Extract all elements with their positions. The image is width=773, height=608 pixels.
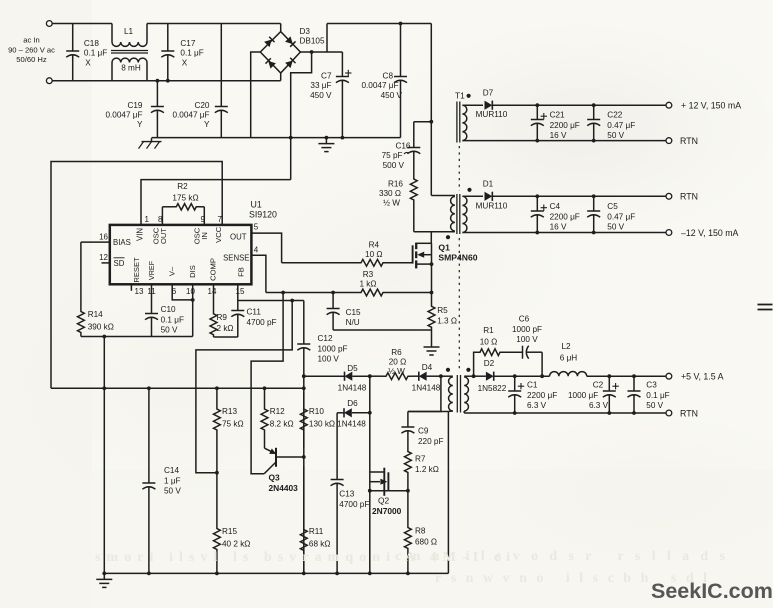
svg-text:C10: C10 bbox=[161, 305, 176, 314]
svg-text:D1: D1 bbox=[483, 179, 494, 188]
svg-text:OUT: OUT bbox=[230, 232, 247, 241]
diode D7 MUR110 bbox=[462, 104, 483, 106]
wire - AC bottom line bbox=[52, 80, 281, 82]
transformer T1 bias winding (left) bbox=[441, 375, 453, 377]
resistor R4 gate bbox=[282, 262, 358, 264]
resistor R9 comp bbox=[213, 284, 215, 311]
svg-text:0.1 μF: 0.1 μF bbox=[180, 49, 203, 58]
svg-text:R16: R16 bbox=[388, 179, 403, 188]
pin 9 OSC IN bbox=[203, 207, 205, 225]
node - V-/DIS join bbox=[191, 298, 195, 302]
svg-text:SMP4N60: SMP4N60 bbox=[438, 253, 477, 263]
wire - VCC bus from left rail bbox=[51, 162, 222, 389]
svg-text:RTN: RTN bbox=[680, 136, 698, 146]
pin 8 OSC OUT bbox=[161, 207, 163, 225]
wire - -12V rail bbox=[462, 232, 669, 234]
svg-text:R3: R3 bbox=[363, 270, 374, 279]
capacitor C3 output bbox=[632, 374, 636, 378]
chassis ground for C19 C20 bbox=[151, 138, 153, 142]
svg-text:Q1: Q1 bbox=[438, 242, 450, 252]
transformer T1 +5V secondary bbox=[464, 377, 468, 411]
svg-text:10 Ω: 10 Ω bbox=[365, 250, 383, 259]
node - primary dot mark bbox=[446, 235, 450, 239]
svg-text:MUR110: MUR110 bbox=[476, 202, 508, 211]
svg-text:2N4403: 2N4403 bbox=[269, 483, 299, 493]
svg-text:N/U: N/U bbox=[346, 318, 360, 327]
svg-text:C4: C4 bbox=[550, 202, 561, 211]
svg-text:175 kΩ: 175 kΩ bbox=[172, 194, 198, 203]
svg-text:500 V: 500 V bbox=[383, 161, 405, 170]
node - D5/D6 join bbox=[368, 374, 372, 378]
wire - D5/D6 gate column bbox=[369, 376, 371, 573]
wire - primary bottom bbox=[414, 231, 455, 233]
capacitor C11 comp bbox=[237, 284, 239, 300]
svg-text:L1: L1 bbox=[124, 27, 134, 36]
node - snubber left tap bbox=[472, 374, 476, 378]
capacitor C18 bbox=[72, 24, 74, 52]
svg-text:C7: C7 bbox=[321, 72, 332, 81]
wire - +5V RTN rail bbox=[463, 411, 465, 413]
svg-text:U1: U1 bbox=[251, 200, 262, 210]
svg-text:C20: C20 bbox=[194, 101, 209, 110]
svg-text:8 mH: 8 mH bbox=[121, 64, 141, 73]
svg-text:1.3 Ω: 1.3 Ω bbox=[437, 316, 457, 325]
wire - staircase to bottom rail bbox=[291, 52, 312, 180]
capacitor C10 reference bbox=[151, 284, 153, 313]
wire - VIN bus to rectified DC bbox=[141, 180, 291, 225]
node - snubber tap bbox=[429, 120, 433, 124]
svg-text:16 V: 16 V bbox=[550, 223, 567, 232]
resistor R13 divider bbox=[215, 386, 219, 390]
diode D1 MUR110 bbox=[462, 195, 483, 197]
svg-text:C17: C17 bbox=[180, 39, 195, 48]
svg-text:C21: C21 bbox=[550, 111, 565, 120]
resistor R12 bbox=[263, 386, 267, 390]
svg-text:7: 7 bbox=[218, 215, 223, 224]
pin 16 BIAS bbox=[81, 241, 110, 243]
resistor R11 divider bbox=[300, 466, 307, 573]
svg-text:ac In: ac In bbox=[23, 35, 39, 44]
svg-text:D6: D6 bbox=[347, 399, 358, 408]
capacitor C14 soft start bbox=[147, 386, 151, 390]
wire - bottom ground rail bbox=[104, 572, 448, 574]
capacitor C13 bbox=[336, 413, 338, 480]
svg-text:+5 V, 1.5 A: +5 V, 1.5 A bbox=[681, 371, 724, 381]
svg-text:1N4148: 1N4148 bbox=[337, 420, 366, 429]
terminal +5V output bbox=[666, 373, 672, 379]
svg-text:R2: R2 bbox=[177, 182, 188, 191]
resistor R15 bbox=[213, 524, 220, 573]
wire - top DC rail bbox=[327, 23, 431, 25]
snubber C6 bbox=[502, 351, 523, 353]
svg-text:2200 μF: 2200 μF bbox=[550, 212, 580, 221]
svg-text:100 V: 100 V bbox=[516, 335, 538, 344]
svg-text:1 kΩ: 1 kΩ bbox=[359, 280, 376, 289]
svg-text:VCC: VCC bbox=[214, 226, 223, 243]
diode D6 1N4148 bbox=[337, 412, 344, 414]
svg-text:1000 pF: 1000 pF bbox=[512, 325, 542, 334]
svg-text:RTN: RTN bbox=[680, 192, 698, 202]
wire - sense tap to Q3 collector bbox=[251, 293, 283, 474]
transformer core dashed line upper bbox=[458, 146, 460, 191]
svg-text:Y: Y bbox=[137, 120, 143, 129]
svg-text:13: 13 bbox=[135, 287, 144, 296]
node - R3/R5 junction bbox=[430, 291, 434, 295]
svg-text:1000 pF: 1000 pF bbox=[318, 344, 348, 353]
svg-text:40 2 kΩ: 40 2 kΩ bbox=[222, 540, 250, 549]
transformer T1 core bbox=[456, 194, 458, 234]
svg-text:R14: R14 bbox=[88, 310, 103, 319]
svg-text:6.3 V: 6.3 V bbox=[527, 401, 547, 410]
svg-text:6.3 V: 6.3 V bbox=[589, 401, 609, 410]
svg-text:C1: C1 bbox=[527, 381, 538, 390]
capacitor C4 bbox=[535, 194, 539, 198]
svg-text:SD: SD bbox=[114, 259, 125, 268]
wire - riser to top DC rail bbox=[326, 24, 328, 53]
wire - Q1 drain/source vertical bbox=[431, 243, 433, 292]
wire - bridge top vertex to AC line bbox=[280, 24, 282, 32]
capacitor C12 feedback bbox=[303, 301, 305, 345]
wire - mid ground rail bbox=[51, 387, 304, 389]
svg-text:C14: C14 bbox=[164, 466, 179, 475]
svg-text:IN: IN bbox=[200, 232, 209, 240]
node - bias winding dot mark bbox=[446, 368, 450, 372]
svg-text:12: 12 bbox=[99, 253, 108, 262]
resistor R16 snubber bbox=[410, 179, 417, 232]
wire - +12V RTN rail bbox=[462, 140, 669, 142]
transistor Q3 2N4403 bbox=[264, 448, 304, 474]
svg-text:R10: R10 bbox=[309, 407, 324, 416]
svg-text:16 V: 16 V bbox=[550, 131, 567, 140]
node - C12 to mid rail bbox=[302, 386, 306, 390]
node - staircase crosses rail bbox=[289, 136, 293, 140]
transformer T1 primary winding bbox=[431, 195, 455, 197]
transistor Q2 2N7000 bbox=[368, 468, 410, 496]
svg-text:BIAS: BIAS bbox=[113, 238, 131, 247]
resistor R10 divider bbox=[300, 392, 307, 448]
svg-text:100 V: 100 V bbox=[318, 355, 340, 364]
svg-text:½ W: ½ W bbox=[383, 199, 400, 208]
svg-text:C3: C3 bbox=[646, 381, 657, 390]
node - staircase junction bbox=[310, 50, 314, 54]
earth ground on bulk rail bbox=[325, 136, 329, 140]
svg-text:SI9120: SI9120 bbox=[249, 210, 277, 220]
wire - DC rail down to primary bbox=[430, 24, 432, 196]
svg-text:RESET: RESET bbox=[132, 257, 141, 283]
transformer T1 bottom core bbox=[456, 375, 458, 413]
snubber R1 bbox=[474, 352, 478, 376]
svg-text:C8: C8 bbox=[383, 72, 394, 81]
svg-text:10 Ω: 10 Ω bbox=[480, 338, 498, 347]
terminal +12V RTN bbox=[666, 138, 672, 144]
svg-text:50 V: 50 V bbox=[161, 326, 178, 335]
terminal +5V RTN bbox=[666, 410, 672, 416]
svg-text:R6: R6 bbox=[391, 348, 402, 357]
node - D4 output bbox=[439, 374, 443, 378]
ground - below R5 bbox=[431, 341, 433, 347]
svg-text:C19: C19 bbox=[127, 101, 142, 110]
wire - Y-cap / bulk cap bottom rail bbox=[152, 137, 401, 139]
wire - AC top line bbox=[52, 23, 112, 25]
svg-text:0.47 μF: 0.47 μF bbox=[607, 121, 635, 130]
resistor R3 sense filter bbox=[266, 292, 358, 294]
capacitor C9 bbox=[407, 412, 409, 428]
ghost bleed-through text bbox=[95, 549, 726, 586]
pin 13 RESET stub bbox=[130, 284, 132, 291]
svg-text:1N4148: 1N4148 bbox=[338, 384, 367, 393]
svg-text:130 kΩ: 130 kΩ bbox=[309, 420, 335, 429]
op-amp U1 SI9120 controller IC body bbox=[110, 225, 252, 284]
wire - analog ground bus bbox=[81, 336, 193, 338]
svg-text:20 Ω: 20 Ω bbox=[389, 358, 407, 367]
transformer T1 +12V secondary bbox=[456, 102, 458, 143]
svg-text:D3: D3 bbox=[300, 27, 311, 36]
svg-text:R1: R1 bbox=[483, 326, 494, 335]
wire - V- pin link bbox=[172, 284, 193, 300]
svg-text:680 Ω: 680 Ω bbox=[415, 537, 437, 546]
svg-text:R11: R11 bbox=[309, 527, 324, 536]
svg-text:6 μH: 6 μH bbox=[560, 353, 578, 362]
resistor R6 bbox=[383, 373, 411, 380]
svg-text:0.47 μF: 0.47 μF bbox=[607, 212, 635, 221]
svg-text:220 pF: 220 pF bbox=[418, 437, 444, 446]
svg-text:FB: FB bbox=[236, 267, 245, 277]
node - bottom rail left end bbox=[102, 572, 106, 576]
node - +5V winding dot mark bbox=[466, 368, 470, 372]
wire - snubber tap link bbox=[414, 121, 432, 123]
capacitor C21 bbox=[535, 103, 539, 107]
wire - FB to divider drop bbox=[196, 301, 292, 473]
diode D4 1N4148 bbox=[418, 372, 420, 381]
wire - DIS pin down to ground bus bbox=[192, 284, 194, 336]
svg-text:+ 12 V, 150 mA: + 12 V, 150 mA bbox=[681, 100, 741, 110]
capacitor C16 snubber bbox=[413, 122, 415, 148]
svg-text:R15: R15 bbox=[222, 527, 237, 536]
svg-text:75 pF: 75 pF bbox=[382, 151, 403, 160]
svg-text:Q2: Q2 bbox=[378, 496, 390, 506]
node - ground bus drop bbox=[102, 335, 106, 339]
svg-text:C9: C9 bbox=[418, 427, 429, 436]
node - sense feedback tap bbox=[281, 291, 285, 295]
svg-text:RTN: RTN bbox=[680, 408, 698, 418]
svg-text:50 V: 50 V bbox=[164, 487, 181, 496]
svg-text:4700 pF: 4700 pF bbox=[339, 500, 369, 509]
node - D6/gate column bbox=[368, 411, 372, 415]
svg-text:2 kΩ: 2 kΩ bbox=[217, 324, 234, 333]
svg-text:0.0047 μF: 0.0047 μF bbox=[361, 81, 398, 90]
wire - C15 bottom return bbox=[333, 329, 431, 331]
svg-text:C13: C13 bbox=[339, 490, 354, 499]
wire - bridge left vertex drop bbox=[251, 52, 261, 138]
svg-text:33 μF: 33 μF bbox=[310, 81, 331, 90]
transformer core dashed line lower bbox=[458, 238, 460, 371]
svg-text:VIN: VIN bbox=[136, 228, 145, 241]
inductor L2 bbox=[515, 375, 550, 377]
svg-text:C2: C2 bbox=[593, 381, 604, 390]
svg-text:OUT: OUT bbox=[159, 228, 168, 244]
capacitor C20 bbox=[220, 24, 222, 107]
capacitor C8 bbox=[400, 24, 402, 77]
svg-text:X: X bbox=[182, 58, 188, 67]
svg-text:VREF: VREF bbox=[147, 260, 156, 280]
svg-text:9: 9 bbox=[201, 215, 206, 224]
resistor R5 current sense bbox=[428, 293, 435, 342]
svg-text:DB105: DB105 bbox=[300, 36, 325, 45]
page margin equals mark bbox=[758, 304, 773, 306]
inductor L1 (common-mode choke) bbox=[111, 24, 113, 43]
svg-text:C15: C15 bbox=[346, 308, 361, 317]
svg-text:8.2 kΩ: 8.2 kΩ bbox=[270, 420, 294, 429]
capacitor C22 bbox=[592, 103, 596, 107]
svg-text:0.1 μF: 0.1 μF bbox=[84, 49, 107, 58]
capacitor C5 bbox=[592, 194, 596, 198]
svg-text:R12: R12 bbox=[270, 407, 285, 416]
resistor R8 bbox=[405, 491, 412, 574]
svg-text:R4: R4 bbox=[369, 240, 380, 249]
capacitor C2 output bbox=[607, 374, 611, 378]
svg-text:C16: C16 bbox=[395, 142, 410, 151]
svg-text:SENSE: SENSE bbox=[223, 253, 249, 262]
node - C17 bottom junction bbox=[166, 79, 170, 83]
svg-text:390 kΩ: 390 kΩ bbox=[88, 323, 114, 332]
terminal -12V bbox=[666, 230, 672, 236]
svg-text:330 Ω: 330 Ω bbox=[379, 189, 401, 198]
svg-text:Y: Y bbox=[204, 120, 210, 129]
diode D2 1N5822 bbox=[474, 375, 486, 377]
capacitor C15 not used bbox=[331, 291, 335, 295]
svg-text:R5: R5 bbox=[437, 306, 448, 315]
svg-text:1: 1 bbox=[145, 215, 150, 224]
svg-text:4700 pF: 4700 pF bbox=[247, 318, 277, 327]
node - FB branch bbox=[290, 299, 294, 303]
svg-text:1N4148: 1N4148 bbox=[412, 384, 441, 393]
svg-text:15: 15 bbox=[236, 287, 245, 296]
svg-text:0.1 μF: 0.1 μF bbox=[646, 391, 669, 400]
wire - D4 drop to C9 branch bbox=[408, 376, 441, 411]
svg-text:R7: R7 bbox=[415, 455, 426, 464]
svg-text:C18: C18 bbox=[84, 39, 99, 48]
wire - ground drop to bottom rail bbox=[103, 337, 105, 574]
wire - bias winding bottom to rail bbox=[408, 411, 449, 413]
wire - FB node line bbox=[238, 300, 304, 302]
capacitor C17 bbox=[167, 24, 169, 52]
capacitor C7 (bulk) bbox=[341, 52, 343, 77]
wire - divider column bbox=[303, 376, 305, 573]
resistor R2 oscillator bbox=[162, 206, 172, 208]
svg-text:14: 14 bbox=[208, 287, 217, 296]
ac input terminal (neutral) bbox=[46, 78, 52, 84]
ac input terminal (line) bbox=[46, 21, 52, 27]
svg-text:2200 μF: 2200 μF bbox=[527, 391, 557, 400]
svg-text:450 V: 450 V bbox=[310, 91, 332, 100]
wire - +5V rail from winding bbox=[464, 375, 473, 377]
svg-text:2N7000: 2N7000 bbox=[372, 506, 402, 516]
svg-text:90 – 260 V ac: 90 – 260 V ac bbox=[8, 46, 55, 55]
svg-text:C6: C6 bbox=[519, 315, 530, 324]
svg-text:DIS: DIS bbox=[188, 265, 197, 278]
wire - OUT pin to gate resistor bbox=[251, 233, 281, 263]
ground - main bottom ground bbox=[103, 573, 105, 579]
svg-text:4: 4 bbox=[254, 246, 259, 255]
terminal -12V RTN bbox=[666, 193, 672, 199]
svg-text:R8: R8 bbox=[415, 527, 426, 536]
svg-text:5: 5 bbox=[254, 222, 259, 231]
pin 12 SD bbox=[102, 262, 110, 264]
svg-text:1N5822: 1N5822 bbox=[478, 384, 507, 393]
svg-text:D7: D7 bbox=[483, 89, 494, 98]
node - -12V winding dot bbox=[467, 188, 471, 192]
svg-text:D2: D2 bbox=[484, 359, 495, 368]
capacitor C19 bbox=[156, 79, 160, 83]
svg-text:L2: L2 bbox=[561, 342, 571, 351]
svg-text:C22: C22 bbox=[607, 111, 622, 120]
svg-text:SeekIC.com: SeekIC.com bbox=[651, 579, 773, 603]
svg-text:2200 μF: 2200 μF bbox=[550, 121, 580, 130]
svg-text:0.0047 μF: 0.0047 μF bbox=[105, 111, 142, 120]
svg-text:75 kΩ: 75 kΩ bbox=[222, 420, 244, 429]
svg-text:Q3: Q3 bbox=[269, 473, 281, 483]
wire - R9/C11 bottom link bbox=[214, 336, 238, 338]
svg-text:T1: T1 bbox=[455, 90, 465, 100]
capacitor C1 output bbox=[513, 374, 517, 378]
svg-text:R9: R9 bbox=[217, 313, 228, 322]
resistor R7 bbox=[405, 448, 412, 491]
svg-text:MUR110: MUR110 bbox=[476, 110, 508, 119]
bridge rectifier D3 DB105 bbox=[260, 32, 300, 73]
wire - SENSE pin line bbox=[251, 255, 266, 292]
node - Q3 base junction bbox=[302, 455, 306, 459]
svg-text:8: 8 bbox=[158, 215, 163, 224]
svg-text:R13: R13 bbox=[222, 407, 237, 416]
wire - bridge right vertex DC line bbox=[300, 51, 342, 53]
wire - R13 to R15 bbox=[216, 435, 218, 524]
svg-text:50 V: 50 V bbox=[607, 223, 624, 232]
svg-text:D5: D5 bbox=[347, 364, 358, 373]
svg-text:D4: D4 bbox=[422, 363, 433, 372]
svg-text:450 V: 450 V bbox=[381, 91, 403, 100]
svg-text:16: 16 bbox=[99, 232, 108, 241]
wire - bias line from C12 node bbox=[304, 375, 345, 377]
transistor Q1 SMP4N60 bbox=[413, 243, 434, 269]
svg-text:C11: C11 bbox=[247, 308, 262, 317]
svg-text:50/60 Hz: 50/60 Hz bbox=[16, 55, 47, 64]
svg-text:1000 μF: 1000 μF bbox=[568, 391, 598, 400]
diode D5 1N4148 bbox=[344, 372, 346, 381]
wire - drain drop bbox=[430, 232, 432, 244]
svg-text:0.0047 μF: 0.0047 μF bbox=[172, 111, 209, 120]
svg-text:50 V: 50 V bbox=[607, 131, 624, 140]
svg-text:10: 10 bbox=[186, 287, 195, 296]
transformer T1 -12V secondary bbox=[462, 196, 467, 232]
svg-text:–12 V, 150 mA: –12 V, 150 mA bbox=[681, 228, 739, 238]
svg-text:½ W: ½ W bbox=[388, 367, 405, 376]
node - C12 to D5 line bbox=[302, 374, 306, 378]
svg-text:X: X bbox=[85, 58, 91, 67]
svg-text:1 μF: 1 μF bbox=[164, 476, 181, 485]
svg-text:C12: C12 bbox=[318, 334, 333, 343]
svg-text:V–: V– bbox=[167, 266, 176, 276]
terminal +12V bbox=[666, 102, 672, 108]
svg-text:1.2 kΩ: 1.2 kΩ bbox=[415, 465, 439, 474]
svg-text:50 V: 50 V bbox=[646, 401, 663, 410]
resistor R14 bias bbox=[78, 242, 85, 336]
svg-text:COMP: COMP bbox=[209, 258, 218, 281]
wire - bridge bottom vertex to AC line bbox=[280, 73, 282, 81]
svg-text:0.1 μF: 0.1 μF bbox=[161, 315, 184, 324]
svg-text:C5: C5 bbox=[607, 202, 618, 211]
svg-text:68 kΩ: 68 kΩ bbox=[309, 540, 331, 549]
